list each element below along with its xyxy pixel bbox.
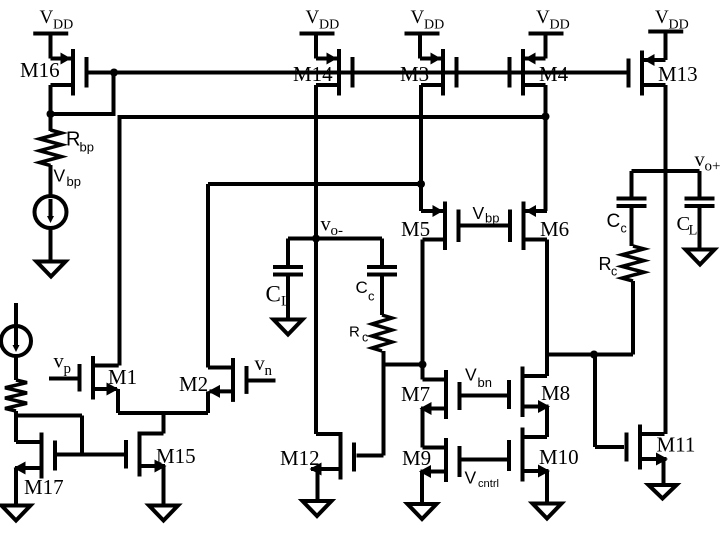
svg-text:M2: M2 xyxy=(179,372,208,396)
svg-text:V: V xyxy=(465,365,477,385)
svg-text:p: p xyxy=(64,361,72,377)
svg-text:o-: o- xyxy=(331,223,344,239)
svg-text:M5: M5 xyxy=(401,217,430,241)
svg-text:V: V xyxy=(655,7,669,28)
svg-text:DD: DD xyxy=(669,18,689,33)
svg-text:bp: bp xyxy=(485,211,499,226)
svg-text:V: V xyxy=(306,7,320,28)
svg-text:M17: M17 xyxy=(24,475,64,499)
svg-text:R: R xyxy=(66,129,80,151)
svg-text:M9: M9 xyxy=(402,446,431,470)
svg-text:M8: M8 xyxy=(541,381,570,405)
svg-text:R: R xyxy=(599,254,612,274)
svg-text:C: C xyxy=(356,278,368,297)
svg-text:o+: o+ xyxy=(705,159,720,175)
svg-text:M6: M6 xyxy=(540,217,569,241)
svg-text:V: V xyxy=(465,468,477,488)
svg-text:V: V xyxy=(40,7,54,28)
svg-text:C: C xyxy=(266,282,281,307)
svg-text:M7: M7 xyxy=(401,382,430,406)
svg-text:c: c xyxy=(368,289,375,304)
svg-text:C: C xyxy=(607,211,621,232)
svg-text:M10: M10 xyxy=(539,445,579,469)
svg-text:DD: DD xyxy=(424,18,444,33)
svg-text:M15: M15 xyxy=(156,444,196,468)
svg-text:DD: DD xyxy=(550,18,570,33)
svg-text:M13: M13 xyxy=(658,62,698,86)
svg-text:V: V xyxy=(411,7,425,28)
svg-text:M4: M4 xyxy=(539,62,569,86)
svg-text:bp: bp xyxy=(80,140,94,155)
svg-text:c: c xyxy=(611,265,617,279)
svg-text:n: n xyxy=(265,363,273,379)
svg-text:bp: bp xyxy=(67,174,81,189)
svg-text:M1: M1 xyxy=(108,365,137,389)
svg-text:L: L xyxy=(689,223,698,239)
svg-text:DD: DD xyxy=(319,18,339,33)
svg-text:bn: bn xyxy=(478,375,492,390)
svg-text:V: V xyxy=(473,203,485,223)
svg-text:V: V xyxy=(536,7,550,28)
svg-text:M3: M3 xyxy=(400,62,429,86)
svg-text:c: c xyxy=(621,222,627,236)
svg-text:M14: M14 xyxy=(293,62,333,86)
svg-text:cntrl: cntrl xyxy=(478,478,499,490)
svg-text:DD: DD xyxy=(53,18,73,33)
svg-text:M11: M11 xyxy=(657,433,696,457)
svg-text:M16: M16 xyxy=(20,58,60,82)
svg-text:V: V xyxy=(54,166,66,186)
svg-text:R: R xyxy=(349,324,360,341)
svg-text:c: c xyxy=(362,331,368,345)
svg-text:M12: M12 xyxy=(280,446,320,470)
svg-text:L: L xyxy=(281,294,290,310)
